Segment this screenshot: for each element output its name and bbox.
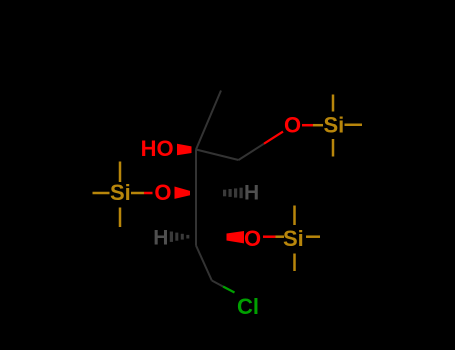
- wire SiB up methyl bond: [293, 206, 296, 226]
- wire SiL left methyl bond: [93, 192, 110, 195]
- svg-text:HO: HO: [141, 136, 174, 161]
- wire Si1 up methyl bond: [332, 95, 335, 112]
- wire O1-Si1 bond oxygen half: [302, 124, 313, 127]
- wedge bond C4 to OR (bold): [227, 231, 245, 243]
- wire C4-C5 bond: [196, 246, 212, 281]
- wire SiL down methyl bond: [119, 208, 122, 228]
- wire SiL up methyl bond: [119, 162, 122, 183]
- wedge bond C2 to OH (bold): [177, 144, 192, 155]
- svg-text:H: H: [244, 181, 259, 204]
- wire Si1 down methyl bond: [332, 139, 335, 157]
- wire C2-CH3 methyl bond: [196, 91, 221, 150]
- wire C2-C1 bond: [196, 150, 239, 161]
- svg-text:Si: Si: [283, 226, 304, 251]
- wedge bond C3 to OL (bold): [175, 187, 191, 199]
- wire SiB right methyl bond: [306, 235, 320, 238]
- svg-text:O: O: [284, 113, 301, 138]
- wire OR-SiB bond silicon half: [276, 235, 285, 238]
- svg-text:Si: Si: [324, 113, 345, 138]
- hashed wedge C3 to H: [223, 188, 243, 199]
- wire C1-O1 bond carbon half: [239, 144, 265, 160]
- wire SiL-OL bond silicon half: [131, 192, 144, 195]
- wire O1-Si1 bond silicon half: [313, 124, 323, 127]
- svg-text:O: O: [244, 226, 261, 251]
- wire SiL-OL bond oxygen half: [144, 192, 153, 195]
- hashed wedge C4 to H: [170, 232, 190, 242]
- wire SiB down methyl bond: [293, 254, 296, 272]
- svg-text:O: O: [154, 180, 171, 205]
- wire OR-SiB bond oxygen half: [263, 235, 276, 238]
- wire Si1 right methyl bond: [345, 124, 363, 127]
- svg-text:H: H: [153, 226, 168, 249]
- svg-text:Cl: Cl: [237, 294, 259, 319]
- wire C5-Cl bond chlorine half: [223, 287, 235, 293]
- svg-text:Si: Si: [110, 180, 131, 205]
- wire C1-O1 bond oxygen half: [264, 132, 283, 144]
- wire C5-Cl bond carbon half: [212, 281, 223, 287]
- wire backbone C2-C3-C4 vertical bond: [195, 150, 197, 246]
